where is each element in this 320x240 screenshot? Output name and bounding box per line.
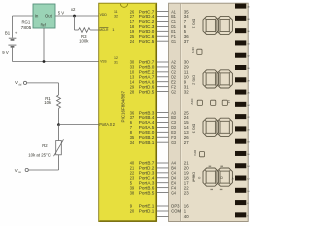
svg-text:MCLR: MCLR (99, 27, 108, 32)
wire PortE.0 to E3 (157, 131, 169, 133)
wire PortD.0 to E1 (157, 30, 169, 32)
svg-text:34: 34 (130, 140, 135, 145)
wire PortD.7 to A2 (157, 61, 169, 63)
svg-text:100k: 100k (79, 38, 89, 43)
wire PortA.4 to C3 (157, 121, 169, 123)
pad pin numbers (247, 7, 250, 218)
svg-text:DP3: DP3 (193, 150, 197, 156)
svg-text:27: 27 (184, 140, 189, 145)
wire PortA.6 to E2 (157, 81, 169, 83)
svg-text:12: 12 (247, 179, 250, 181)
svg-text:9 V: 9 V (2, 50, 9, 55)
svg-text:x2: x2 (71, 7, 76, 12)
svg-text:10: 10 (247, 191, 250, 193)
svg-text:PortB.1: PortB.1 (139, 140, 155, 145)
wire 5V rail regulator Out to chip VDD (55, 15, 99, 17)
svg-text:DIG 2: DIG 2 (191, 75, 195, 85)
svg-text:10k at 25°C: 10k at 25°C (28, 153, 51, 158)
digit 4 segment annotations (193, 166, 235, 191)
svg-text:22: 22 (247, 117, 250, 119)
svg-text:31: 31 (114, 60, 119, 65)
svg-text:23: 23 (184, 190, 189, 195)
svg-text:PortD.1: PortD.1 (139, 209, 155, 214)
svg-text:B1: B1 (5, 31, 11, 36)
digit graphic 8 (DIG 2) (203, 70, 232, 88)
wire PortA.5 to D3 (157, 126, 169, 128)
wire PortA.3 to E4 (157, 182, 169, 184)
wire PortE.1 to DP3 (157, 205, 169, 207)
thermistor R2 10k at 25C (56, 141, 62, 155)
svg-text:30: 30 (247, 68, 250, 70)
svg-text:G1: G1 (171, 39, 176, 44)
wire PortB.0 to B2 (157, 66, 169, 68)
resistor R3 100k (75, 28, 99, 33)
node R1/R2/PortA.0 junction (57, 123, 60, 126)
wire ground rail battery to chip VSS (13, 61, 99, 63)
wire battery plus to regulator In (13, 15, 34, 17)
wire PortB.2 to F3 (157, 136, 169, 138)
svg-text:PortC.5: PortC.5 (139, 39, 155, 44)
node Ref junction (43, 60, 46, 63)
wire PortC.4 to D4 (157, 177, 169, 179)
svg-text:20: 20 (247, 129, 250, 131)
svg-text:PortA.0: PortA.0 (99, 122, 112, 127)
wire junction to thermistor (58, 125, 60, 141)
svg-text:DP2: DP2 (190, 99, 194, 105)
svg-text:26: 26 (247, 93, 250, 95)
wire PortB.4 to B3 (157, 117, 169, 119)
svg-text:40: 40 (184, 214, 189, 219)
node x2 junction (73, 15, 76, 18)
svg-text:36: 36 (247, 31, 250, 33)
wire PortD.4 to B1 (157, 16, 169, 18)
resistor R1 10k (57, 95, 61, 125)
terminal Vss (25, 168, 28, 171)
svg-text:VSS: VSS (100, 58, 107, 63)
wire PortC.5 to G1 (157, 40, 169, 42)
svg-text:COM: COM (171, 209, 181, 214)
svg-text:38: 38 (247, 19, 250, 21)
digit graphic 8 (DIG 1) (203, 16, 232, 34)
svg-text:Ref: Ref (41, 22, 47, 27)
svg-text:DP1: DP1 (191, 47, 195, 53)
wire junction to R3 (74, 16, 76, 30)
wire R2 to Vss (58, 155, 60, 170)
DP1 pad (191, 47, 202, 54)
battery B1 9V (8, 16, 16, 62)
svg-text:G4: G4 (171, 190, 176, 195)
DP3 pad (193, 150, 204, 157)
svg-text:24: 24 (247, 105, 250, 107)
svg-text:16: 16 (247, 154, 250, 156)
svg-text:32: 32 (114, 13, 119, 18)
svg-text:37: 37 (184, 39, 189, 44)
svg-text:7805: 7805 (21, 25, 32, 30)
svg-text:28: 28 (247, 80, 250, 82)
svg-text:38: 38 (130, 190, 135, 195)
wire junction to chip PortA.0 (59, 124, 99, 126)
wire PortD.2 to B4 (157, 167, 169, 169)
svg-text:PIC16F884/887: PIC16F884/887 (121, 90, 126, 122)
DP2 pad and colon pads (190, 99, 231, 106)
wire PortC.7 to A1 (157, 11, 169, 13)
svg-text:40: 40 (247, 7, 250, 9)
svg-text:G2: G2 (171, 89, 176, 94)
svg-text:R2: R2 (42, 143, 48, 148)
digit graphic 8 (DIG 3) (203, 118, 232, 136)
svg-text:PortD.5: PortD.5 (139, 89, 155, 94)
wire PortD.1 to COM (157, 210, 169, 212)
digit graphic 8 (DIG 4) (203, 168, 232, 186)
svg-text:32: 32 (184, 89, 189, 94)
voltage regulator RG1 7805 (33, 4, 55, 28)
wire PortB.1 to G3 (157, 141, 169, 143)
svg-text:32: 32 (247, 56, 250, 58)
wire PortD.3 to C4 (157, 172, 169, 174)
svg-text:10k: 10k (44, 100, 52, 105)
svg-text:L1: L1 (227, 100, 231, 104)
wire PortB.6 to F4 (157, 187, 169, 189)
wire PortD.6 to F2 (157, 86, 169, 88)
microcontroller U1 PIC16F884/887 (99, 3, 157, 221)
svg-text:14: 14 (247, 166, 250, 168)
svg-text:VDD: VDD (100, 12, 107, 17)
wire PortA.7 to D2 (157, 76, 169, 78)
svg-text:DIG 3: DIG 3 (191, 124, 195, 134)
svg-text:34: 34 (247, 43, 250, 45)
wire PortD.5 to G2 (157, 91, 169, 93)
wire PortB.7 to A4 (157, 162, 169, 164)
wire PortE.2 to C2 (157, 71, 169, 73)
wire PortC.3 to D1 (157, 25, 169, 27)
wire Vdd to R1 (27, 82, 59, 84)
wire PortB.5 to G4 (157, 192, 169, 194)
display solder pads (235, 4, 246, 218)
svg-text:DIG 1: DIG 1 (191, 19, 195, 29)
wire PortC.2 to C1 (157, 20, 169, 22)
svg-text:24: 24 (130, 39, 135, 44)
svg-text:5 V: 5 V (58, 10, 65, 15)
wire PortC.6 to F1 (157, 35, 169, 37)
wire to display pin 40 (157, 216, 169, 218)
chip notch (120, 4, 127, 8)
svg-text:28: 28 (130, 89, 135, 94)
svg-text:Out: Out (45, 13, 53, 18)
wire PortB.3 to A3 (157, 112, 169, 114)
display groove (180, 4, 182, 221)
svg-text:20: 20 (130, 209, 135, 214)
svg-text:18: 18 (247, 142, 250, 144)
wire regulator Ref to ground rail (43, 28, 45, 62)
svg-text:PortB.5: PortB.5 (139, 190, 155, 195)
svg-text:G3: G3 (171, 140, 176, 145)
4-digit 7-segment display module DS1 (169, 3, 249, 221)
